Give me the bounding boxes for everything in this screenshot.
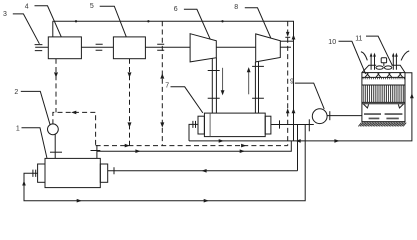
svg-text:8: 8 [234, 4, 238, 11]
svg-text:1: 1 [16, 125, 20, 132]
svg-text:11: 11 [355, 35, 362, 42]
svg-text:4: 4 [25, 4, 29, 11]
svg-text:6: 6 [174, 6, 178, 13]
svg-text:9: 9 [290, 79, 294, 86]
svg-text:5: 5 [90, 3, 94, 10]
svg-text:10: 10 [328, 39, 336, 46]
svg-text:2: 2 [14, 89, 18, 96]
svg-text:3: 3 [3, 11, 7, 18]
svg-text:7: 7 [165, 83, 169, 90]
